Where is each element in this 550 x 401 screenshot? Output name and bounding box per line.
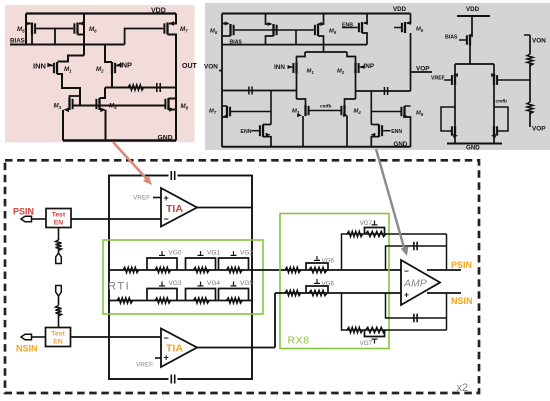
pmos M5	[31, 23, 33, 35]
pink schematic panel background	[5, 5, 195, 142]
nmos gM8	[403, 106, 405, 117]
nmos cM4	[493, 126, 495, 137]
arrow M7 source	[169, 21, 175, 26]
wire VOP stub	[411, 71, 433, 73]
nmos M2	[111, 62, 113, 74]
wire M5 drain	[31, 35, 33, 45]
arrow gM4	[343, 113, 348, 117]
wire GND rail (gray left)	[222, 146, 411, 148]
pmos cM2	[493, 74, 495, 86]
resistor divider R1	[527, 54, 533, 66]
wire gM6 drain to VOP	[410, 33, 412, 91]
wire gM5 source	[222, 23, 229, 25]
wire INN lead	[49, 65, 53, 67]
wire NSIN to TestEN	[32, 336, 46, 338]
svg-text:VG1: VG1	[207, 250, 220, 257]
wire gM4 source	[346, 116, 348, 147]
wire M6 source stub	[83, 14, 85, 56]
wire VDD rail (pink)	[26, 12, 176, 14]
wire VREF stub top	[153, 197, 161, 199]
wire test resistor drop top	[58, 228, 60, 241]
wire bias source (cmfb)	[471, 16, 473, 34]
switched resistor VG6 bottom	[309, 290, 327, 295]
svg-text:Test: Test	[51, 331, 65, 338]
wire TIA top output	[197, 207, 252, 209]
capacitor left (gray)	[248, 87, 250, 95]
wire RX8 second line	[275, 292, 401, 294]
svg-text:EN: EN	[54, 220, 64, 227]
wire pad to resistor bottom	[58, 296, 60, 306]
svg-text:NSIN: NSIN	[451, 296, 473, 306]
wire M2 drain to bias line	[105, 45, 112, 63]
svg-text:x2: x2	[457, 382, 469, 394]
svg-text:+: +	[164, 353, 169, 363]
wire ENB gate lead	[342, 27, 358, 29]
wire gM8 source	[405, 117, 411, 147]
svg-text:Test: Test	[52, 212, 66, 219]
nmos gM7	[226, 106, 228, 117]
wire NSIN output	[427, 292, 461, 294]
nmos M8	[167, 98, 169, 110]
wire fb top cap run	[386, 246, 447, 270]
resistor RTI top fixed	[123, 267, 139, 272]
svg-text:VREF: VREF	[133, 195, 150, 202]
wire TIA bottom output	[197, 347, 275, 349]
pmos gM9	[317, 24, 319, 36]
svg-text:−: −	[164, 333, 169, 343]
svg-text:M7: M7	[209, 109, 217, 116]
arrow cM2	[491, 73, 496, 77]
svg-text:OUT: OUT	[182, 63, 198, 70]
callout arrow gray	[376, 149, 405, 251]
svg-text:PSIN: PSIN	[13, 207, 34, 217]
wire cBIAS drain	[469, 46, 471, 65]
wire cM3 diode loop	[441, 107, 455, 131]
switched resistor VG3	[155, 298, 171, 303]
wire gM8 drain	[405, 105, 411, 107]
arrow gM9	[317, 22, 322, 26]
svg-text:M1: M1	[307, 69, 315, 76]
arrow M1 gate	[47, 63, 53, 68]
arrow gM2	[360, 65, 365, 69]
resistor test bottom	[56, 306, 62, 317]
pmos M6	[76, 23, 78, 35]
svg-text:NSIN: NSIN	[16, 344, 38, 354]
switched resistor VG6 top	[309, 267, 327, 272]
arrow M5 source	[26, 21, 32, 26]
wire VREF stub bottom	[155, 357, 161, 359]
wire cM2 gate lead	[498, 79, 530, 81]
switched resistor VG4	[194, 298, 210, 303]
switched resistor VG0	[155, 267, 171, 272]
capacitor bottom feedback	[169, 374, 178, 385]
wire cM4 source	[493, 137, 495, 144]
arrow gENN2	[371, 133, 376, 137]
wire gM2 gate lead	[360, 66, 364, 68]
svg-text:cmfb: cmfb	[496, 99, 508, 105]
svg-text:ENN: ENN	[391, 129, 402, 135]
wire M2 source to output line	[111, 74, 113, 88]
svg-text:EN: EN	[53, 339, 63, 346]
wire RX8 input jog	[274, 293, 276, 348]
block Test EN bottom	[46, 328, 71, 347]
wire M3 source to ground	[62, 110, 64, 141]
wire right gate line	[371, 111, 401, 113]
wire M5 source stub	[25, 14, 27, 45]
wire GND rail (pink)	[63, 139, 176, 141]
wire TIA feedback box	[109, 176, 252, 380]
svg-text:−: −	[164, 214, 169, 224]
pmos cM1	[454, 74, 456, 86]
wire left cm line	[222, 90, 297, 92]
wire BIAS line (gray)	[222, 44, 367, 46]
wire gM3 source	[302, 116, 304, 147]
RX8 group box	[280, 214, 389, 349]
nmos cM3	[454, 126, 456, 137]
svg-text:cmfb: cmfb	[320, 103, 332, 109]
arrow gENN1	[266, 133, 271, 137]
wire cmfb gate line	[310, 110, 341, 112]
nmos gM4	[343, 105, 345, 116]
svg-text:M2: M2	[337, 69, 345, 76]
svg-text:VDD: VDD	[393, 6, 407, 13]
wire gENN1 drain	[263, 124, 271, 126]
wire compensation line	[105, 87, 176, 89]
switched resistor VG2	[227, 267, 243, 272]
resistor Rz (pink)	[128, 85, 144, 90]
svg-text:ENN: ENN	[241, 129, 252, 135]
wire gM3 drain link	[297, 99, 306, 105]
svg-text:+: +	[164, 193, 169, 203]
pmos gM6	[404, 22, 406, 33]
wire M8 drain stub	[169, 98, 177, 100]
wire gate link line	[235, 29, 314, 31]
svg-text:VON: VON	[204, 64, 218, 71]
svg-text:M5: M5	[210, 29, 218, 36]
wire tail drop left	[454, 64, 456, 74]
svg-text:VDD: VDD	[466, 6, 480, 13]
wire M4 source to ground	[105, 110, 107, 141]
wire output vertical	[168, 35, 177, 141]
pad NSIN	[21, 334, 32, 340]
wire gM7 gate line	[230, 111, 271, 113]
wire mirror gates line	[73, 105, 166, 107]
svg-text:VG7: VG7	[360, 220, 373, 227]
wire TestEN top output	[71, 218, 161, 220]
arrow cBIAS	[468, 33, 473, 37]
svg-text:RX8: RX8	[288, 335, 310, 347]
svg-text:PSIN: PSIN	[451, 260, 472, 270]
arrow gM8	[403, 114, 408, 118]
wire TestEN bottom output	[71, 336, 162, 338]
wire gP2 to gate line	[270, 91, 272, 125]
wire M7 gate lead	[125, 29, 164, 45]
capacitor top feedback	[169, 170, 178, 181]
svg-text:M9: M9	[329, 29, 337, 36]
svg-text:−: −	[404, 266, 409, 276]
resistor test top	[56, 240, 62, 251]
arrow M4 source	[100, 108, 106, 113]
wire gM7 source	[222, 116, 227, 118]
wire gM9 drain tail	[318, 36, 324, 52]
wire cM1 gate lead	[444, 79, 451, 81]
pad test top	[56, 253, 62, 264]
wire cM3 source	[454, 137, 456, 144]
wire VON stub (cmfb)	[524, 34, 530, 36]
wire gM2 drain	[355, 74, 357, 99]
capacitor fb top	[413, 242, 415, 251]
svg-text:VG6: VG6	[322, 280, 335, 287]
pmos gM2	[354, 62, 356, 74]
wire first stage link	[58, 56, 85, 62]
wire gENB source	[364, 14, 367, 24]
nmos M3	[68, 98, 70, 110]
pmos gP2	[272, 24, 274, 36]
svg-text:INN: INN	[274, 64, 285, 71]
wire tail (cmfb)	[455, 63, 494, 65]
svg-text:VREF: VREF	[431, 75, 445, 81]
switched resistor VG7 bottom	[366, 327, 386, 332]
svg-text:VON: VON	[532, 38, 546, 45]
arrow gM5	[225, 22, 230, 26]
wire cM1 drain	[454, 86, 456, 125]
wire PSIN to TestEN	[32, 218, 47, 220]
wire ENN1 gate lead	[252, 130, 260, 132]
wire RTI bottom row	[109, 300, 252, 302]
wire VON stub	[219, 70, 222, 72]
switched resistor VG5	[227, 298, 243, 303]
pmos M7	[166, 23, 168, 35]
op-amp TIA top	[161, 188, 197, 227]
wire ENN2 gate lead	[383, 130, 391, 132]
wire M5 gate lead	[36, 29, 55, 45]
arrow M6 source	[79, 21, 85, 26]
wire gENN1 source	[263, 137, 271, 147]
wire M3 drain stub	[70, 96, 81, 98]
arrow cM1	[453, 73, 458, 77]
wire cBIAS gate lead	[459, 39, 466, 41]
dashed block boundary	[5, 160, 479, 393]
resistor RX8 second line	[285, 290, 301, 295]
svg-text:VG0: VG0	[169, 250, 182, 257]
pmos cBIAS	[469, 35, 471, 46]
wire gM7 drain	[222, 105, 227, 107]
wire gP2 drain	[266, 36, 274, 45]
wire divider mid	[529, 64, 531, 102]
pad test bottom	[56, 286, 62, 297]
RTI group box	[103, 240, 263, 314]
svg-text:BIAS: BIAS	[10, 38, 25, 45]
wire tail drop right	[493, 64, 495, 74]
svg-text:VG4: VG4	[207, 280, 220, 287]
resistor divider R2	[527, 102, 533, 114]
arrow gP2	[268, 22, 273, 26]
op-amp TIA bottom	[161, 329, 197, 368]
pmos gENB	[361, 22, 363, 33]
wire VDD rail (gray left)	[222, 13, 411, 15]
wire fb bottom resistor run	[342, 293, 447, 330]
arrow gM7	[223, 114, 228, 118]
wire ENB branch vertical	[370, 91, 372, 125]
pad PSIN	[21, 216, 32, 222]
callout arrow pink	[113, 142, 149, 182]
arrow gM6	[406, 21, 411, 25]
wire M1 source to mirror gates	[57, 74, 80, 106]
capacitor fb bottom	[413, 314, 415, 323]
gray schematic panel background	[205, 3, 550, 150]
svg-text:VREF: VREF	[136, 362, 153, 369]
wire gM4 drain link	[345, 99, 356, 105]
svg-text:VG7: VG7	[360, 340, 373, 347]
nmos M1	[56, 62, 58, 74]
svg-text:VOP: VOP	[532, 126, 546, 133]
wire VDD stub (cmfb)	[457, 15, 490, 17]
arrow M3 source	[64, 108, 70, 113]
wire gENN2 source	[371, 137, 379, 147]
svg-text:VG3: VG3	[169, 280, 182, 287]
arrow cM4	[491, 134, 496, 138]
svg-text:VG2: VG2	[240, 250, 253, 257]
wire left bus (gray)	[221, 14, 223, 148]
wire gENB drain	[362, 33, 367, 45]
resistor fb bottom	[347, 327, 363, 332]
wire gM9 source	[319, 14, 324, 25]
resistor RX8 top line	[285, 267, 301, 272]
wire tail right	[347, 52, 356, 62]
wire cM4 diode loop	[494, 107, 508, 131]
wire M7 source stub	[169, 14, 176, 24]
wire tail left	[297, 52, 306, 62]
block Test EN top	[46, 209, 71, 228]
wire BIAS line (pink)	[10, 44, 125, 46]
wire gM6 gate stub	[394, 27, 401, 29]
wire divider top	[529, 35, 531, 54]
wire gM1 gate lead	[288, 66, 292, 68]
nmos M4	[98, 98, 100, 110]
resistor RTI bottom fixed	[117, 298, 133, 303]
svg-text:M6: M6	[416, 27, 424, 34]
nmos gENN2	[378, 124, 380, 137]
arrow M8 source	[169, 107, 175, 112]
svg-text:M8: M8	[416, 111, 424, 118]
arrow gENB	[363, 21, 368, 25]
wire resistor to TestEN bottom	[58, 315, 60, 328]
wire fb bottom drop	[446, 293, 448, 330]
wire PSIN output	[427, 269, 461, 271]
svg-text:M4: M4	[354, 109, 362, 116]
wire fb bottom cap run	[386, 293, 447, 318]
wire gENN2 drain	[371, 124, 379, 126]
wire INP lead	[116, 65, 120, 67]
resistor fb top	[347, 231, 363, 236]
wire gM6 source	[407, 14, 411, 24]
svg-text:VG6: VG6	[322, 257, 335, 264]
svg-text:VG5: VG5	[240, 280, 253, 287]
arrow gM3	[297, 113, 302, 117]
wire fb top drop	[446, 234, 448, 270]
arrow cM3	[453, 134, 458, 138]
wire cM2 drain	[493, 86, 495, 125]
wire gM5 drain	[222, 35, 231, 37]
arrow gM1	[288, 65, 293, 69]
wire gP2 source	[266, 14, 272, 25]
wire fb top resistor run	[342, 234, 447, 270]
nmos gENN1	[262, 124, 264, 137]
svg-text:+: +	[404, 290, 409, 300]
wire divider bottom	[529, 112, 531, 127]
arrow M2 gate	[116, 63, 122, 68]
wire gate link to BIAS	[295, 30, 297, 45]
wire tail bar	[305, 51, 347, 53]
svg-text:INP: INP	[120, 60, 133, 69]
wire right cm line	[356, 90, 411, 92]
wire gM1 drain	[296, 74, 298, 99]
svg-text:AMP: AMP	[403, 278, 427, 290]
wire to pad top	[58, 249, 60, 253]
svg-text:INN: INN	[33, 61, 46, 70]
switched resistor VG1	[194, 267, 210, 272]
wire M8 source stub	[169, 109, 177, 111]
wire M6 drain vertical	[78, 34, 85, 36]
capacitor right (gray)	[383, 87, 385, 95]
svg-text:INP: INP	[364, 63, 375, 70]
nmos gM3	[304, 105, 306, 116]
svg-text:RTI: RTI	[108, 280, 130, 292]
switched resistor VG7 top	[366, 231, 386, 236]
wire M4 drain to output line	[100, 88, 106, 99]
svg-text:GND: GND	[466, 145, 480, 152]
svg-text:BIAS: BIAS	[445, 35, 458, 41]
wire GND rail (cmfb)	[447, 143, 502, 145]
wire M6 gate lead	[55, 28, 73, 30]
pmos gM1	[295, 62, 297, 74]
op-amp AMP	[401, 260, 440, 305]
pmos gM5	[229, 24, 231, 36]
wire RTI top row	[109, 269, 401, 271]
capacitor Cc (pink)	[156, 83, 158, 92]
